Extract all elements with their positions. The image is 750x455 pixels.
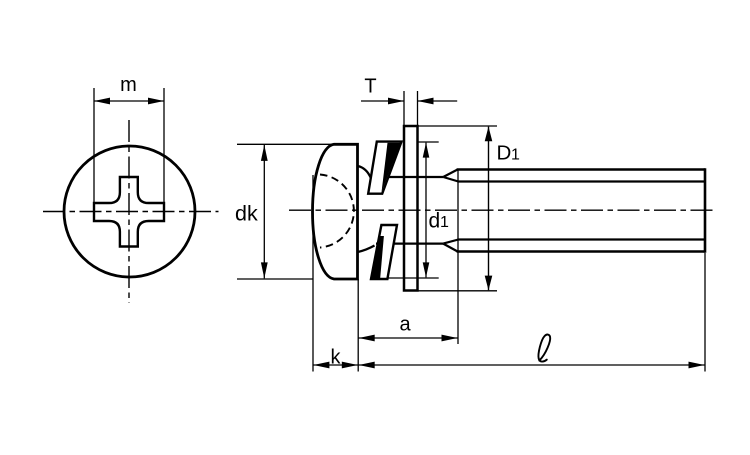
thread run-out lower xyxy=(443,240,458,252)
thread crest line top xyxy=(457,168,705,171)
k extension line xyxy=(312,175,314,372)
label l (script ell) xyxy=(538,334,550,361)
svg-text:m: m xyxy=(120,74,137,96)
a extension line at thread start xyxy=(457,170,459,344)
shank line upper xyxy=(371,176,443,178)
hidden recess dashed arc inside head xyxy=(320,175,354,248)
dimension line D1 xyxy=(488,127,490,291)
m extension line right xyxy=(163,88,165,203)
pan head outline (side view) xyxy=(313,144,358,279)
T extension line right xyxy=(417,91,419,125)
dimension line a xyxy=(358,337,458,339)
d1 tick bottom xyxy=(387,277,439,279)
shaft end face xyxy=(704,168,707,253)
dimension line dk xyxy=(263,145,265,279)
flat washer (side view) xyxy=(404,126,418,291)
svg-text:a: a xyxy=(399,314,411,336)
svg-text:T: T xyxy=(364,76,376,98)
thread run-out upper xyxy=(443,170,458,182)
svg-text:k: k xyxy=(331,347,342,369)
dimension line T right part xyxy=(418,100,458,102)
d1 tick top xyxy=(418,141,439,143)
D1 extension line top xyxy=(418,125,497,127)
D1 extension line bottom xyxy=(418,290,497,292)
dimension line l xyxy=(358,364,705,366)
dk extension line top xyxy=(237,143,334,145)
shank line lower xyxy=(376,243,443,245)
dk extension line bottom xyxy=(237,278,314,280)
T extension line left xyxy=(403,91,405,125)
svg-text:D: D xyxy=(497,142,512,165)
phillips recess cross (front view) xyxy=(94,177,164,247)
dimension line k xyxy=(313,364,358,366)
svg-text:dk: dk xyxy=(235,201,258,225)
thread root line bottom xyxy=(457,238,705,240)
spring washer lower section xyxy=(358,225,397,279)
vertical centerline (front view) xyxy=(128,120,130,303)
svg-text:d: d xyxy=(429,210,441,233)
head outline circle (front view) xyxy=(64,146,195,277)
svg-text:1: 1 xyxy=(440,214,449,231)
spring washer upper section xyxy=(358,142,402,194)
head face extension line xyxy=(357,279,359,372)
horizontal centerline (front view) xyxy=(43,211,219,213)
svg-text:1: 1 xyxy=(511,147,520,164)
dimension line d1 xyxy=(425,143,427,278)
thread root line top xyxy=(457,180,705,182)
l extension line at shaft end xyxy=(704,253,706,372)
thread crest line bottom xyxy=(457,250,705,253)
m extension line left xyxy=(93,88,95,203)
screw axis centerline (side view) xyxy=(289,209,716,211)
dimension line T left part xyxy=(361,100,404,102)
dimension line m xyxy=(94,100,164,102)
